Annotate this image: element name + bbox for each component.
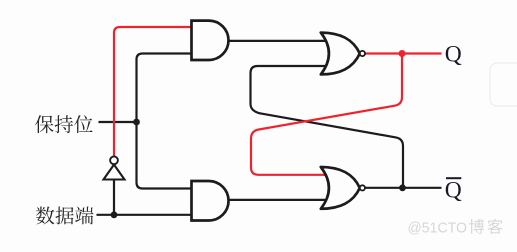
node C junction (Q, red) [399,50,406,57]
inverter U5 bubble [110,156,118,164]
wire: Qbar feedback from node D up and left to top NOR input B [251,66,404,188]
NOR gate U4 output bubble [360,185,365,190]
wire: Q feedback (red) from node C down and left to bottom NOR input A [251,54,402,175]
svg-text:Q: Q [445,178,462,204]
svg-text:Q: Q [445,41,462,67]
wire: hold-bit lead from label to node A [99,121,137,123]
node A junction (hold bit) [133,119,140,126]
AND gate U2 (bottom) [192,181,229,221]
node B junction (data) [111,211,118,218]
wire: hold-bit branch down to bottom AND input A [137,122,196,189]
NOR gate U3 (top) body [321,33,360,75]
NOR gate U3 output bubble [360,51,365,56]
label 保持位 [35,115,93,133]
faint watermark box [490,63,517,106]
wire: hold-bit branch up to top AND input B [137,54,196,123]
wire: top NOR output (red) to Q [366,52,442,54]
Qbar overline [446,177,461,179]
wire: bottom NOR output to Qbar [366,187,442,189]
inverter U5 triangle [104,165,125,180]
wire: bottom AND output to bottom NOR input B [226,199,329,201]
NOR gate U4 (bottom) body [321,167,360,209]
wire: top AND output to top NOR input A [226,40,329,42]
wire: data lead from label across node B to bottom AND input B [97,214,196,216]
watermark 博客 [469,219,503,234]
wire: inverted data (red) from inverter bubble up then right to top AND input A [114,27,195,157]
node D junction (Qbar) [399,184,406,191]
wire: inverter stem from node B up to triangle [113,178,115,215]
svg-text:@51CTO: @51CTO [408,220,468,236]
label 数据端 [36,207,94,225]
AND gate U1 (top) [192,21,229,60]
